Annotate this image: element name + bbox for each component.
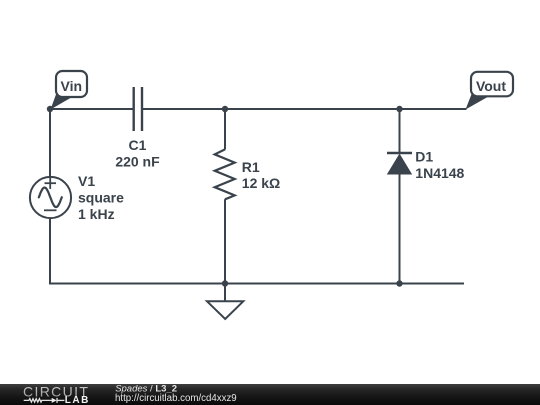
wire left V1 bottom lead: [49, 218, 51, 285]
net label Vout: [466, 72, 514, 110]
net label Vin: [51, 71, 88, 110]
diode D1: [387, 153, 412, 174]
footer bar: [0, 384, 540, 405]
wire bottom rail: [49, 283, 464, 285]
svg-text:12 kΩ: 12 kΩ: [242, 175, 280, 191]
label C1 value: [115, 137, 160, 169]
voltage source V1: [30, 177, 71, 218]
svg-text:C1: C1: [129, 137, 147, 153]
svg-text:square: square: [78, 189, 124, 205]
wire D1 bottom lead: [399, 174, 401, 284]
svg-text:1N4148: 1N4148: [415, 165, 464, 181]
svg-text:http://circuitlab.com/cd4xxz9: http://circuitlab.com/cd4xxz9: [115, 393, 237, 404]
wire D1 top lead: [399, 109, 401, 153]
label R1 value: [242, 159, 280, 191]
svg-text:LAB: LAB: [65, 395, 90, 405]
wire ground stub: [224, 284, 226, 302]
svg-text:V1: V1: [78, 173, 95, 189]
svg-text:Vout: Vout: [476, 78, 506, 94]
node junction Vin at V1/C1: [47, 106, 53, 112]
capacitor C1: [134, 87, 142, 131]
resistor R1: [215, 149, 235, 199]
label D1 value: [415, 149, 464, 181]
wire R1 bottom lead: [224, 199, 226, 283]
label V1 value: [78, 173, 124, 222]
wire left V1 top lead: [49, 109, 51, 177]
ground: [207, 301, 243, 319]
footer logo resistor-diode glyph: [24, 398, 65, 403]
node junction bottom at D1: [396, 280, 402, 286]
wire top from C1 right plate to Vout tail: [143, 108, 467, 110]
svg-text:Vin: Vin: [61, 78, 83, 94]
node junction top at R1: [222, 106, 228, 112]
wire top from node Vin to C1 left plate: [50, 108, 133, 110]
wire R1 top lead: [224, 109, 226, 150]
svg-text:D1: D1: [415, 149, 433, 165]
node junction Vout at D1: [396, 106, 402, 112]
svg-text:220 nF: 220 nF: [115, 154, 160, 170]
svg-text:1 kHz: 1 kHz: [78, 206, 115, 222]
svg-text:R1: R1: [242, 159, 260, 175]
node junction bottom at R1/ground: [222, 280, 228, 286]
